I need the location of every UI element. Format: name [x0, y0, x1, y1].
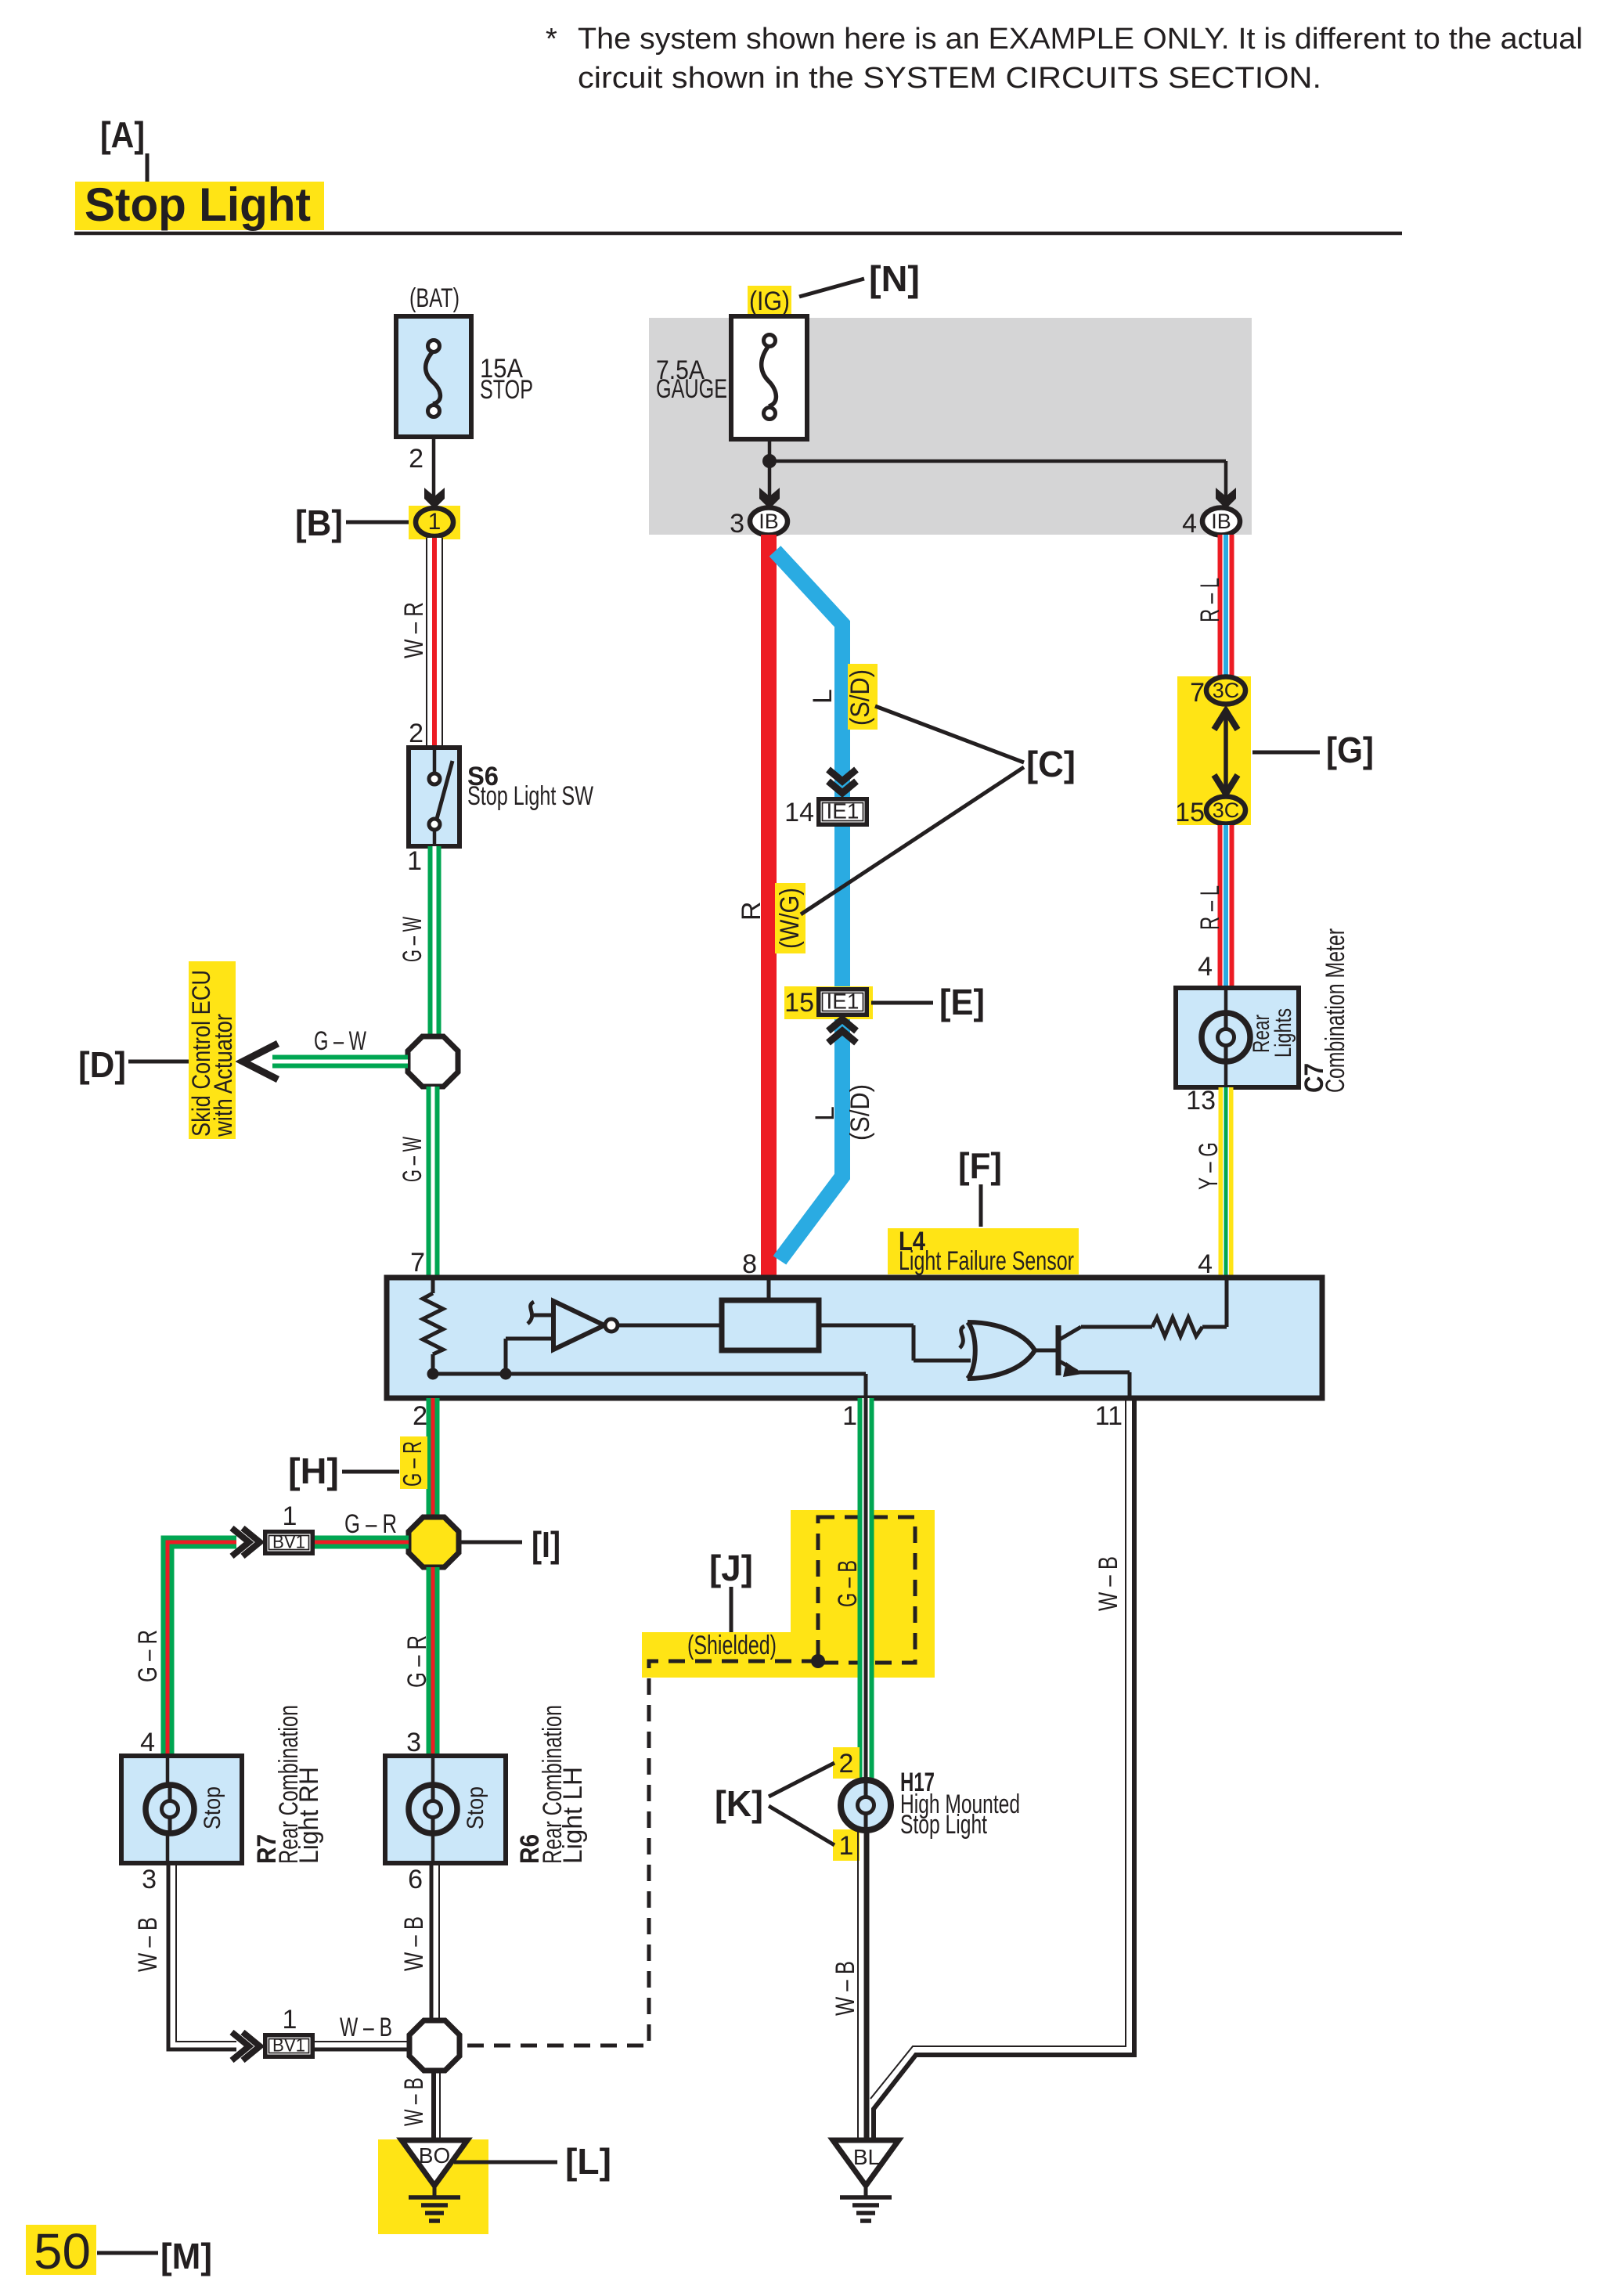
- svg-text:G – R: G – R: [402, 1635, 432, 1688]
- wire W-B to BO: [431, 2071, 436, 2140]
- svg-text:2: 2: [413, 1401, 427, 1431]
- L4 pin8 stub: [767, 1278, 771, 1300]
- wire R-L upper: [1218, 535, 1234, 676]
- svg-text:14: 14: [784, 798, 814, 827]
- svg-text:(Shielded): (Shielded): [687, 1631, 777, 1660]
- svg-text:[C]: [C]: [1026, 744, 1076, 784]
- switch S6 Stop Light SW: [409, 748, 460, 846]
- lamp R7 Rear Combination Light RH: [121, 1756, 242, 1863]
- fuse 15A STOP body: [396, 316, 471, 437]
- pin 1 tag: [833, 1829, 860, 1861]
- svg-text:1: 1: [842, 1401, 857, 1431]
- svg-text:3: 3: [730, 509, 744, 539]
- L4 internal junction dot 1: [427, 1368, 439, 1380]
- wire G-R from pin 2: [427, 1398, 440, 1519]
- svg-text:4: 4: [1182, 509, 1197, 539]
- L4 OR gate squiggle: [960, 1326, 964, 1348]
- wire R (red trunk): [761, 535, 777, 1278]
- L4 internal junction dot 2: [500, 1368, 512, 1380]
- wire stub to 3 IB: [768, 468, 772, 505]
- svg-text:R – L: R – L: [1195, 578, 1225, 622]
- wire G-B from L4 pin 1: [858, 1398, 874, 1780]
- lamp H17 High Mounted Stop Light: [841, 1780, 891, 1830]
- svg-text:[K]: [K]: [715, 1783, 763, 1824]
- wire W-B from R7: [168, 1863, 236, 2049]
- svg-text:3C: 3C: [1213, 679, 1240, 702]
- L4 OR gate U2: [968, 1322, 1035, 1379]
- svg-text:G – R: G – R: [344, 1509, 397, 1539]
- svg-text:[N]: [N]: [869, 258, 920, 299]
- svg-text:L: L: [808, 689, 838, 704]
- svg-text:BV1: BV1: [272, 1532, 305, 1553]
- title underline: [74, 232, 1402, 236]
- svg-text:4: 4: [140, 1728, 155, 1757]
- fuse 7.5A GAUGE body: [731, 316, 807, 439]
- svg-text:Stop: Stop: [200, 1786, 225, 1829]
- L4 wire resistor to pin 4: [1202, 1325, 1227, 1329]
- svg-text:(W/G): (W/G): [775, 888, 805, 949]
- svg-text:W – B: W – B: [1094, 1556, 1123, 1611]
- svg-text:13: 13: [1186, 1086, 1216, 1116]
- connector BV1 (upper): [232, 1528, 249, 1556]
- wire W-B from pin 11: [874, 1398, 1134, 2138]
- L4 internal bus wire: [433, 1372, 866, 1376]
- wire fuse2 output: [768, 439, 772, 468]
- svg-text:2: 2: [409, 719, 423, 748]
- svg-text:G – R: G – R: [398, 1441, 427, 1487]
- svg-text:R: R: [737, 901, 766, 921]
- arrow to skid control ECU: [243, 1043, 278, 1080]
- svg-text:[H]: [H]: [288, 1451, 339, 1491]
- svg-text:IE1: IE1: [827, 798, 860, 823]
- svg-text:4: 4: [1198, 952, 1213, 982]
- svg-text:Stop Light SW: Stop Light SW: [467, 781, 593, 811]
- svg-text:Stop Light: Stop Light: [85, 178, 311, 231]
- svg-text:7: 7: [1190, 678, 1205, 708]
- L4 emitter wire to pin 11: [1077, 1371, 1130, 1375]
- svg-text:[B]: [B]: [295, 503, 343, 543]
- svg-text:7: 7: [410, 1248, 425, 1278]
- wire G-R BV1 to R7: [168, 1542, 236, 1756]
- junction dot: [762, 454, 777, 468]
- svg-text:[D]: [D]: [78, 1044, 126, 1085]
- L4 internal comparator input wire: [504, 1339, 508, 1374]
- svg-text:IB: IB: [1211, 510, 1231, 533]
- svg-text:The system shown here is an EX: The system shown here is an EXAMPLE ONLY…: [578, 23, 1583, 56]
- svg-text:2: 2: [839, 1749, 854, 1779]
- junction octagon (ground): [409, 2020, 460, 2071]
- svg-text:Lights: Lights: [1270, 1008, 1296, 1058]
- shield dashed wire to ground octagon: [462, 1661, 818, 2045]
- svg-text:*: *: [546, 23, 557, 56]
- svg-text:W – R: W – R: [399, 602, 429, 658]
- svg-text:G – B: G – B: [833, 1560, 863, 1607]
- connector BV1 (lower): [232, 2032, 249, 2060]
- svg-text:circuit shown in the SYSTEM CI: circuit shown in the SYSTEM CIRCUITS SEC…: [578, 62, 1321, 95]
- pin 2 tag: [833, 1747, 860, 1779]
- lamp R6 Rear Combination Light LH: [385, 1756, 506, 1863]
- svg-text:G – W: G – W: [398, 1137, 427, 1182]
- svg-text:4: 4: [1198, 1249, 1213, 1279]
- svg-text:G – R: G – R: [133, 1630, 163, 1682]
- wire G-W to skid control: [272, 1055, 408, 1069]
- shield junction dot: [811, 1654, 825, 1668]
- svg-text:GAUGE: GAUGE: [656, 374, 727, 404]
- svg-text:8: 8: [742, 1249, 757, 1279]
- relay block (gray): [649, 318, 1252, 535]
- svg-text:Light RH: Light RH: [294, 1767, 324, 1864]
- svg-text:6: 6: [408, 1865, 423, 1894]
- connector 15 IE1: [784, 986, 873, 1019]
- svg-text:[J]: [J]: [709, 1548, 753, 1588]
- arrow out of 15 IE1: [828, 1019, 856, 1031]
- svg-text:1: 1: [283, 1501, 297, 1531]
- L4 comparator (inverter) U1: [553, 1301, 604, 1350]
- svg-text:[F]: [F]: [958, 1145, 1002, 1186]
- page number 50: [26, 2225, 96, 2275]
- L4 collector wire: [1081, 1325, 1152, 1329]
- L4 internal resistor R-in: [431, 1278, 435, 1293]
- wire label (W/G): [775, 883, 805, 953]
- wire G-W lower: [427, 1087, 440, 1278]
- svg-text:Combination Meter: Combination Meter: [1321, 928, 1350, 1093]
- svg-text:BO: BO: [419, 2143, 450, 2168]
- label Skid Control ECU with Actuator: [189, 961, 236, 1139]
- svg-text:L: L: [810, 1106, 840, 1121]
- svg-text:3: 3: [142, 1865, 157, 1894]
- connector 3C pair [G]: [1177, 676, 1251, 825]
- svg-text:IE1: IE1: [827, 989, 860, 1013]
- arrow into 14 IE1: [828, 770, 856, 781]
- wire label (S/D) upper: [848, 664, 878, 730]
- svg-text:[M]: [M]: [160, 2236, 212, 2276]
- svg-text:3C: 3C: [1213, 798, 1240, 822]
- svg-text:3: 3: [406, 1728, 421, 1757]
- light failure sensor L4 box: [387, 1278, 1322, 1398]
- wire W-B BV1 to octagon: [315, 2048, 410, 2052]
- svg-text:[I]: [I]: [532, 1524, 560, 1565]
- svg-text:(S/D): (S/D): [845, 1084, 875, 1141]
- svg-text:Light Failure Sensor: Light Failure Sensor: [899, 1246, 1074, 1276]
- label L4 Light Failure Sensor: [888, 1228, 1079, 1274]
- svg-text:1: 1: [407, 846, 422, 876]
- wire R-L lower: [1218, 825, 1234, 988]
- svg-text:(BAT): (BAT): [409, 283, 460, 313]
- svg-text:Stop Light: Stop Light: [900, 1810, 987, 1840]
- L4 internal block: [722, 1300, 819, 1350]
- L4 internal resistor R-out: [1152, 1317, 1202, 1336]
- svg-text:Y – G: Y – G: [1194, 1142, 1224, 1190]
- wire G-R octagon to BV1: [315, 1536, 409, 1549]
- junction octagon [I]: [409, 1517, 459, 1567]
- label (IG): [748, 286, 791, 317]
- wire G-R octagon to R6: [427, 1567, 440, 1756]
- node B connector 1: [409, 506, 460, 539]
- svg-text:15: 15: [784, 988, 814, 1018]
- junction J/C (octagon): [408, 1036, 458, 1087]
- wire to 4 IB: [769, 460, 1226, 463]
- svg-text:G – W: G – W: [314, 1026, 366, 1056]
- wire G-W upper: [428, 846, 441, 1037]
- svg-text:[L]: [L]: [565, 2141, 611, 2182]
- wire Y-G: [1219, 1087, 1234, 1278]
- svg-text:15: 15: [1175, 798, 1205, 827]
- svg-text:(IG): (IG): [749, 287, 790, 316]
- svg-text:(S/D): (S/D): [845, 669, 875, 726]
- svg-text:[A]: [A]: [100, 114, 145, 155]
- svg-text:W – B: W – B: [831, 1961, 860, 2016]
- wire label G-R (highlighted): [400, 1436, 427, 1489]
- svg-text:Light LH: Light LH: [558, 1767, 588, 1864]
- shield dashed box: [818, 1517, 915, 1663]
- title Stop Light: [75, 182, 324, 230]
- svg-text:W – B: W – B: [399, 1916, 429, 1971]
- shield highlight: [791, 1510, 935, 1678]
- svg-text:50: 50: [34, 2223, 91, 2280]
- wire L (blue, shielded): [775, 551, 842, 1260]
- wire W-B from R6: [430, 1863, 434, 2021]
- L4 comparator squiggle: [528, 1302, 534, 1324]
- svg-text:G – W: G – W: [398, 917, 427, 962]
- svg-text:1: 1: [839, 1831, 854, 1861]
- combination meter C7 Rear Lights: [1176, 988, 1299, 1087]
- svg-text:1: 1: [428, 509, 441, 535]
- svg-text:STOP: STOP: [480, 375, 533, 405]
- svg-text:11: 11: [1095, 1401, 1123, 1431]
- L4 transistor Q1: [1035, 1349, 1058, 1353]
- svg-text:R – L: R – L: [1195, 885, 1225, 930]
- svg-text:BL: BL: [853, 2145, 880, 2169]
- L4 internal wire comparator to block: [618, 1324, 722, 1328]
- svg-text:W – B: W – B: [340, 2013, 392, 2042]
- wire fuse1 to node B: [432, 437, 436, 505]
- svg-text:Stop: Stop: [463, 1786, 488, 1829]
- svg-text:with Actuator: with Actuator: [209, 1014, 237, 1137]
- svg-text:IB: IB: [759, 510, 779, 533]
- svg-text:W – B: W – B: [399, 2078, 429, 2126]
- svg-text:W – B: W – B: [133, 1917, 163, 1972]
- wire W-B from H17: [864, 1830, 870, 2140]
- ground BO: [378, 2139, 488, 2234]
- wire W-R: [426, 538, 443, 748]
- L4 internal wire block to OR gate: [819, 1324, 914, 1328]
- svg-text:2: 2: [409, 444, 423, 474]
- svg-text:BV1: BV1: [272, 2035, 305, 2056]
- ground BL: [833, 2140, 899, 2186]
- svg-text:[E]: [E]: [939, 982, 985, 1022]
- svg-text:1: 1: [283, 2005, 297, 2035]
- svg-text:[G]: [G]: [1326, 730, 1374, 770]
